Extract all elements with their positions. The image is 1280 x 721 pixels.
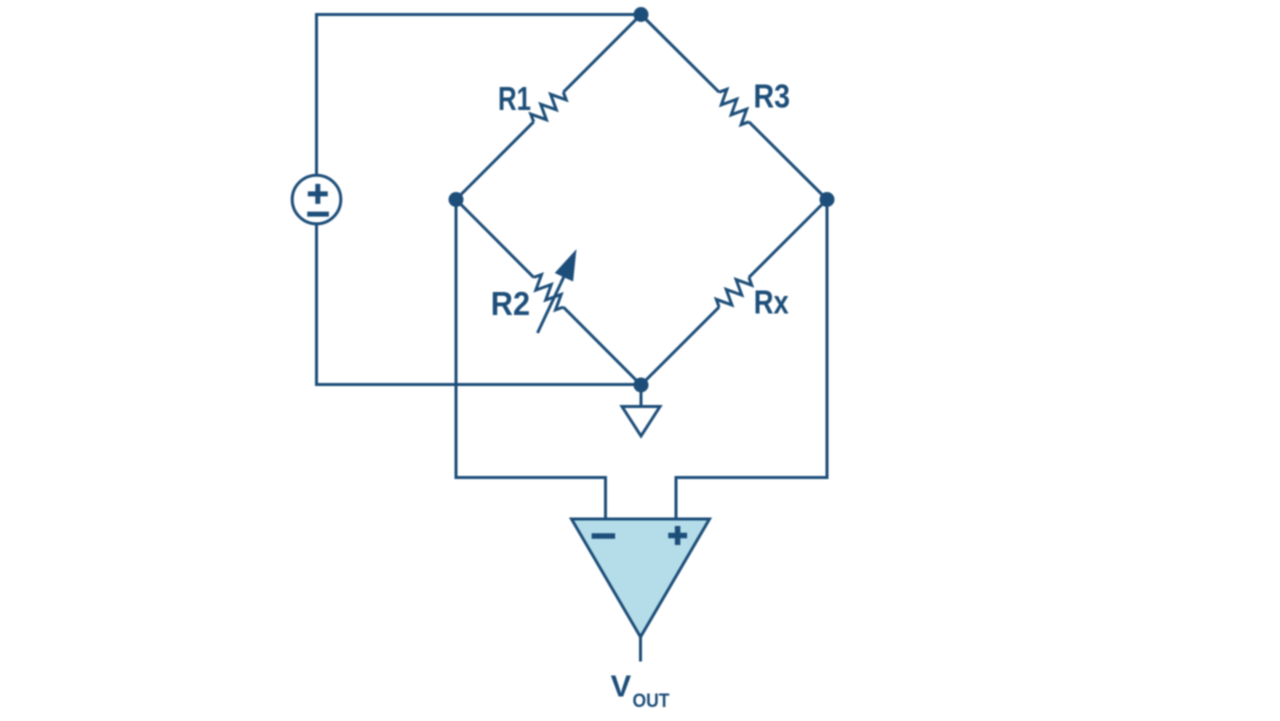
svg-text:Rx: Rx <box>754 285 789 322</box>
svg-text:R3: R3 <box>754 79 791 116</box>
wire top: source top to top node <box>317 15 642 177</box>
resistor R3 <box>641 15 827 200</box>
node bottom <box>634 378 649 393</box>
node right <box>820 192 835 207</box>
resistor R1 <box>456 15 641 200</box>
op-amp U1 <box>572 519 710 637</box>
wire left branch: left node to op-amp minus input <box>456 200 606 521</box>
node top <box>634 7 649 22</box>
label VOUT <box>611 669 670 713</box>
wire output <box>639 637 642 662</box>
resistor R2 (variable) <box>456 200 641 386</box>
voltage source V1 <box>292 175 341 224</box>
wire right branch: right node to op-amp plus input <box>676 200 827 521</box>
resistor Rx <box>641 200 827 386</box>
svg-text:OUT: OUT <box>633 691 670 712</box>
ground <box>622 385 660 436</box>
svg-text:R2: R2 <box>491 286 530 323</box>
node left <box>449 192 464 207</box>
wire bottom: source bottom to bottom node <box>317 224 642 385</box>
svg-text:R1: R1 <box>498 81 531 118</box>
svg-text:V: V <box>611 669 632 704</box>
